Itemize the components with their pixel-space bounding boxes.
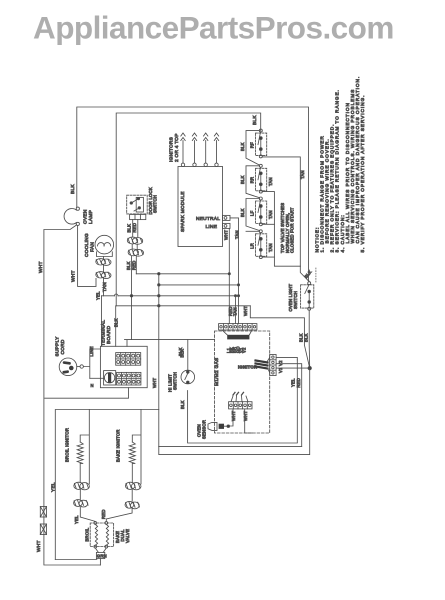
bake broil dual valve L1 L2 <box>90 523 113 547</box>
svg-text:N: N <box>91 383 94 388</box>
svg-text:WHT: WHT <box>38 261 44 273</box>
valve switch RF <box>256 133 267 156</box>
svg-text:YEL: YEL <box>95 291 100 300</box>
svg-text:BLK: BLK <box>252 115 258 125</box>
bake disconnect pair <box>125 501 134 508</box>
svg-text:3. SERVICER: PLEASE RETURN DI: 3. SERVICER: PLEASE RETURN DIAGRAM TO RA… <box>335 89 341 252</box>
svg-text:RED: RED <box>131 260 136 270</box>
wire bus to M1/M2 strip drops <box>235 296 237 324</box>
svg-text:WHT: WHT <box>71 270 77 282</box>
wire neutral from board bottom <box>45 388 129 399</box>
svg-text:BLK: BLK <box>180 400 185 409</box>
svg-text:SWITCH: SWITCH <box>172 372 177 390</box>
svg-text:AppliancePartsPros.com: AppliancePartsPros.com <box>33 10 394 46</box>
svg-text:WHT: WHT <box>36 540 42 552</box>
svg-text:SPARK MODULE: SPARK MODULE <box>180 191 186 232</box>
door lock connector strip <box>130 214 146 219</box>
bus 1 <box>136 273 229 275</box>
svg-text:M1/M2 GAS: M1/M2 GAS <box>214 358 220 386</box>
bus 3 <box>102 295 239 297</box>
svg-text:WHT: WHT <box>224 230 229 240</box>
wire RED down <box>301 366 303 446</box>
svg-text:WHT: WHT <box>231 411 236 421</box>
fan connector pair upper <box>96 259 106 265</box>
valve switch LR <box>256 234 267 256</box>
wire BLK into oven light switch <box>300 266 309 281</box>
wires WHT from bottom strip <box>228 409 252 433</box>
svg-text:CLOSED FOR START: CLOSED FOR START <box>290 207 295 253</box>
ground GRN funnel <box>95 548 106 552</box>
svg-text:2 OR 4 TOP: 2 OR 4 TOP <box>174 133 180 162</box>
wire YEL broil to valve <box>80 490 95 522</box>
spark module terminal N <box>223 215 231 220</box>
svg-text:LABEL ALL WIRES PRIOR TO DISCO: LABEL ALL WIRES PRIOR TO DISCONNECTION <box>345 102 351 243</box>
wires door lock leads <box>133 220 138 237</box>
svg-text:WHT: WHT <box>243 411 248 421</box>
door lock disconnect pair 1 <box>127 237 137 244</box>
terminal board TB1 <box>100 346 147 387</box>
wire WHT bus4 to right junction <box>250 306 309 368</box>
svg-text:IGNITOR: IGNITOR <box>238 365 257 370</box>
svg-text:SWITCH: SWITCH <box>293 291 298 309</box>
terminal strip lower <box>117 372 141 385</box>
svg-text:BROIL IGNITOR: BROIL IGNITOR <box>65 428 70 462</box>
svg-text:RED: RED <box>101 509 106 519</box>
door lock switch <box>127 195 148 214</box>
wire branch to M1/M2 left <box>125 340 215 347</box>
bake ignitor connector <box>125 482 135 489</box>
connector left disconnect 2 <box>40 524 46 535</box>
svg-text:V2: V2 <box>242 347 247 353</box>
svg-text:TERMINAL: TERMINAL <box>101 320 107 346</box>
M1/M2 GAS control dashed box <box>215 331 270 433</box>
cord strain relief <box>77 366 80 368</box>
svg-text:LINE: LINE <box>89 346 94 356</box>
junction dots bus crossings <box>158 284 160 286</box>
svg-text:2. REFER ONLY TO FEATURES EQU: 2. REFER ONLY TO FEATURES EQUIPPED. <box>330 124 336 253</box>
svg-text:SWITCH: SWITCH <box>153 195 158 213</box>
ignitor electrode 2 <box>193 163 196 166</box>
svg-text:LAMP: LAMP <box>88 210 94 224</box>
oven light switch <box>301 285 314 308</box>
svg-text:V1 V2: V1 V2 <box>278 360 283 373</box>
svg-text:RR: RR <box>250 177 255 184</box>
wire bottom rail 1 <box>159 445 302 447</box>
wire BLK long drop from buses <box>158 274 160 447</box>
M1/M2 top connector strip P1 <box>219 324 257 330</box>
wire to terminal board 2 <box>115 306 117 347</box>
M1/M2 connector funnel shading <box>222 330 252 335</box>
svg-text:TAN: TAN <box>102 282 108 292</box>
wire enclosure to GRN <box>55 559 97 561</box>
wire rail step RF <box>246 131 259 165</box>
wire bottom rail 2 <box>159 368 310 455</box>
wire L1 outer loop BLK <box>77 107 309 282</box>
svg-text:YEL: YEL <box>74 515 79 524</box>
svg-text:LF: LF <box>250 210 255 216</box>
svg-text:LR: LR <box>250 243 255 249</box>
svg-text:TAN: TAN <box>300 170 305 179</box>
svg-text:OVEN: OVEN <box>83 209 89 224</box>
svg-text:BLK: BLK <box>126 224 131 233</box>
wire inner top feed <box>116 113 261 306</box>
svg-text:BAKE IGNITOR: BAKE IGNITOR <box>116 429 121 462</box>
spark module terminal L1 <box>223 223 231 228</box>
oven lamp <box>64 208 77 224</box>
wire fan stem <box>103 257 105 296</box>
neutral lug N <box>104 371 116 385</box>
wire WHT from lamp to fan row <box>78 226 96 287</box>
wire RED bake to valve <box>106 490 132 522</box>
ignitor electrode 4 <box>215 163 218 166</box>
broil disconnect pair <box>74 500 83 507</box>
svg-text:COOLING: COOLING <box>84 233 90 257</box>
wire rail step RR <box>246 166 259 198</box>
ignitor electrode 1 <box>181 163 184 166</box>
wire BLK sensor loop <box>188 391 298 444</box>
valve switch RR <box>256 168 267 191</box>
svg-text:BLK: BLK <box>240 175 245 184</box>
svg-text:RF: RF <box>250 142 255 148</box>
wire cord to neutral lug <box>90 377 104 379</box>
svg-text:NOTICE:: NOTICE: <box>315 227 321 253</box>
M1/M2 bottom connector strip P2 <box>229 402 252 409</box>
fan connector pair lower <box>96 272 106 278</box>
svg-text:WHT: WHT <box>243 306 248 316</box>
svg-text:TAN: TAN <box>268 177 273 186</box>
wire RF exit TAN to right rail <box>262 157 300 266</box>
svg-text:BLK: BLK <box>114 318 119 327</box>
wire TAN collector <box>262 192 300 267</box>
wire rail step LR <box>246 230 259 232</box>
junction node right <box>308 366 311 369</box>
svg-text:5. VERIFY PROPER OPERATION AF: 5. VERIFY PROPER OPERATION AFTER SERVICI… <box>360 95 366 253</box>
wire TAN spark to bus2 <box>230 218 239 324</box>
wire YEL down <box>296 360 298 443</box>
svg-text:IGNITORS: IGNITORS <box>169 137 175 162</box>
svg-text:RED: RED <box>132 223 137 233</box>
svg-text:TAN: TAN <box>232 307 237 316</box>
fold mark dashes <box>315 268 317 282</box>
svg-text:BLK: BLK <box>240 142 245 151</box>
valve switch LF <box>256 201 267 224</box>
svg-text:CORD: CORD <box>60 339 66 354</box>
svg-text:BLK: BLK <box>304 333 309 342</box>
svg-text:TAN: TAN <box>268 243 273 252</box>
bus 4 <box>116 305 250 307</box>
svg-text:SUPPLY: SUPPLY <box>55 336 61 357</box>
bottom strip funnels <box>231 396 248 402</box>
svg-text:BLK: BLK <box>303 269 312 279</box>
svg-text:SENSOR: SENSOR <box>201 420 206 439</box>
terminal strip upper <box>116 353 141 366</box>
hi limit switch S2 <box>181 370 195 384</box>
svg-text:RED: RED <box>296 378 301 388</box>
svg-text:BLK: BLK <box>126 261 131 270</box>
svg-text:WHT: WHT <box>152 378 157 388</box>
bus 2 <box>159 284 239 286</box>
cooling fan motor <box>95 235 114 254</box>
svg-text:NEUTRAL: NEUTRAL <box>196 216 220 222</box>
svg-text:TAN: TAN <box>234 230 239 239</box>
wire enclosure top edge <box>55 410 159 560</box>
wire WHT spark to bus1 and strip <box>228 228 230 323</box>
svg-text:BLK: BLK <box>179 349 184 358</box>
wire cord to line <box>83 349 100 378</box>
connector left disconnect 1 <box>40 507 46 518</box>
svg-text:VALVE: VALVE <box>125 529 130 543</box>
wires door lock to buses <box>132 244 137 249</box>
broil ignitor connector <box>74 482 84 489</box>
svg-text:LINE: LINE <box>206 224 218 230</box>
svg-text:BLK: BLK <box>70 184 76 194</box>
svg-text:TAN: TAN <box>268 210 273 219</box>
svg-text:BROIL: BROIL <box>84 527 89 541</box>
spark module U1 <box>178 167 223 247</box>
door lock disconnect pair 2 <box>128 249 138 256</box>
svg-text:FAN: FAN <box>90 242 96 252</box>
ignitor electrode 3 <box>204 163 207 166</box>
svg-text:BOARD: BOARD <box>106 325 112 344</box>
wire rail step LF <box>246 199 259 231</box>
wire oven light to junction <box>308 310 311 368</box>
svg-text:GRN: GRN <box>97 554 107 559</box>
wires ignitor connector to right <box>276 357 310 368</box>
wire YEL to terminal board <box>101 296 103 347</box>
svg-text:BLK: BLK <box>240 208 245 217</box>
